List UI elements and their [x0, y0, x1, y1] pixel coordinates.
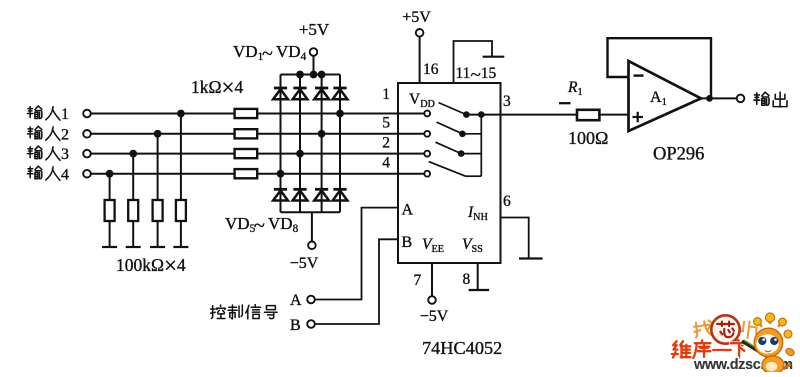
+5V clamp supply terminal	[299, 20, 330, 75]
op-amp A1 triangle	[629, 61, 702, 131]
svg-text:−5V: −5V	[290, 255, 319, 272]
common bus wire to pin 3	[461, 115, 481, 177]
plus input mark	[633, 112, 644, 123]
output node dot	[706, 95, 713, 102]
svg-text:16: 16	[423, 61, 439, 78]
polarity minus mark near R1	[559, 102, 571, 104]
pin 16 VDD supply: +5V terminal	[402, 9, 431, 83]
svg-text:2: 2	[382, 135, 390, 152]
wire A to IC pin A	[314, 208, 398, 300]
junction dot row 1 to bias resistor	[177, 110, 185, 118]
svg-text:3: 3	[503, 93, 511, 110]
resistor R1 (horizontal)	[577, 110, 599, 120]
svg-text:B: B	[402, 234, 413, 251]
diode VD5 (clamp to -5V)	[273, 189, 288, 200]
svg-text:8: 8	[463, 271, 471, 288]
diode VD1 (clamp to +5V)	[273, 88, 288, 99]
label 控制信号 (control signal)	[211, 305, 277, 319]
feedback wire output to - input	[608, 38, 712, 98]
diode VD4 (clamp to +5V)	[333, 88, 348, 99]
minus input mark	[634, 74, 644, 76]
pin number 6	[503, 193, 511, 210]
svg-text:~: ~	[254, 215, 265, 237]
wire from row 4 down to bias resistor 1	[109, 174, 111, 200]
svg-text:OP296: OP296	[653, 145, 704, 165]
wire input row 4	[90, 173, 424, 175]
resistor 100k #4 (vertical)	[176, 200, 186, 221]
wire resistor 3 to rail stub	[157, 221, 159, 247]
resistor 1k row 4 (horizontal)	[235, 169, 258, 178]
svg-text:A: A	[290, 292, 302, 309]
wire clamp column 2	[299, 75, 301, 213]
-5V clamp supply terminal	[290, 212, 319, 272]
label VDD inside IC	[409, 91, 435, 110]
switch pole contact row 2	[424, 131, 430, 137]
wire input row 3	[90, 153, 424, 155]
label VD5~VD8	[225, 214, 299, 237]
watermark 找芯片	[693, 320, 757, 339]
label 输入2 (input 2)	[27, 126, 69, 143]
svg-text:1: 1	[382, 86, 390, 103]
input terminal 输入1	[83, 110, 91, 118]
pin number 7	[414, 272, 422, 289]
value label 1kΩ×4	[191, 75, 244, 100]
input terminal 输入3	[83, 150, 91, 158]
wire clamp column 1	[280, 75, 282, 213]
rail junction dots	[296, 71, 325, 79]
diode VD3 (clamp to +5V)	[314, 88, 329, 99]
switch arm row 4	[429, 162, 466, 177]
svg-text:+5V: +5V	[299, 20, 330, 39]
resistor 1k row 2 (horizontal)	[235, 129, 258, 138]
wire B to IC pin B	[314, 239, 398, 324]
label VD1~VD4	[233, 42, 307, 65]
resistor 100k #1 (vertical)	[105, 200, 115, 221]
label R1	[567, 79, 583, 98]
wire from row 1 down to bias resistor 4	[180, 114, 182, 201]
ground stub bar under resistor 4	[173, 246, 188, 248]
svg-text:B: B	[290, 317, 301, 334]
svg-text:+5V: +5V	[402, 9, 431, 26]
switch arm row 3	[436, 142, 462, 153]
wire from row 2 down to bias resistor 3	[157, 134, 159, 200]
resistor 1k row 1 (horizontal)	[235, 109, 258, 118]
svg-text:74HC4052: 74HC4052	[422, 338, 502, 358]
IC U1 74HC4052 body	[398, 83, 501, 263]
wire input row 2	[90, 133, 424, 135]
svg-text:100Ω: 100Ω	[568, 128, 608, 148]
pin number 8	[463, 271, 471, 288]
pin 7 VEE to -5V terminal	[420, 263, 449, 325]
label 输入3 (input 3)	[27, 146, 69, 163]
label A inside IC	[402, 202, 414, 219]
input terminal 输入2	[83, 130, 91, 138]
diode VD2 (clamp to +5V)	[293, 88, 308, 99]
label A1	[650, 89, 667, 108]
junction dot row 2 to bias resistor	[154, 130, 162, 138]
resistor 1k row 3 (horizontal)	[235, 149, 258, 158]
svg-text:3: 3	[61, 146, 69, 163]
wire resistor 1 to rail stub	[109, 221, 111, 247]
pins 11~15 tied to ground	[454, 41, 505, 83]
svg-text:6: 6	[503, 193, 511, 210]
wire input row 1	[90, 113, 424, 115]
pin number 1	[382, 86, 390, 103]
label B control input	[290, 317, 301, 334]
watermark url www.dzsc.com	[693, 357, 793, 373]
output terminal	[737, 95, 745, 103]
wire pin 3 to R1	[466, 114, 577, 116]
value label 100Ω	[568, 128, 608, 148]
label 输出 (output)	[754, 92, 787, 107]
terminal A	[307, 296, 315, 304]
input terminal 输入4	[83, 170, 91, 178]
wire from row 3 down to bias resistor 2	[132, 154, 134, 200]
pin 6 INH wire to ground	[501, 218, 543, 259]
diode VD6 (clamp to -5V)	[293, 189, 308, 200]
label VEE inside IC	[422, 236, 444, 255]
junction dot row 3 to clamp diode column	[296, 150, 304, 158]
diode VD7 (clamp to -5V)	[314, 189, 329, 200]
label 74HC4052	[422, 338, 502, 358]
svg-text:−5V: −5V	[420, 308, 449, 325]
svg-text:1kΩ×4: 1kΩ×4	[191, 75, 244, 100]
bottom clamp rail (-5V)	[281, 211, 341, 213]
label A control input	[290, 292, 302, 309]
top clamp rail (+5V)	[281, 74, 341, 76]
svg-text:7: 7	[414, 272, 422, 289]
wire R1 to op-amp + input	[599, 114, 628, 116]
label OP296	[653, 145, 704, 165]
switch arm row 1	[439, 103, 467, 115]
switch pole contact row 3	[424, 151, 430, 157]
svg-text:4: 4	[382, 155, 390, 172]
ground stub bar under resistor 3	[150, 246, 165, 248]
resistor 100k #3 (vertical)	[153, 200, 163, 221]
pin number 16	[423, 61, 439, 78]
wire clamp column 3	[321, 75, 323, 213]
svg-text:100kΩ×4: 100kΩ×4	[116, 253, 186, 278]
label 输入4 (input 4)	[27, 166, 69, 183]
junction dot row 4 to clamp diode column	[277, 170, 285, 178]
svg-text:4: 4	[61, 166, 69, 183]
ground stub bar under resistor 2	[126, 246, 141, 248]
label VSS inside IC	[462, 236, 483, 255]
watermark magnifier with 芯	[711, 315, 743, 346]
output wire	[701, 97, 737, 99]
ground stub bar under resistor 1	[102, 246, 117, 248]
switch pole contact row 4	[424, 171, 430, 177]
switch pole contact row 1	[424, 111, 430, 117]
svg-text:1: 1	[61, 106, 69, 123]
pin number 4	[382, 155, 390, 172]
svg-text:5: 5	[382, 115, 390, 132]
wire resistor 2 to rail stub	[132, 221, 134, 247]
pin number 5	[382, 115, 390, 132]
pin number 2	[382, 135, 390, 152]
value label 100kΩ×4	[116, 253, 186, 278]
svg-text:~: ~	[262, 43, 273, 65]
watermark 维库一下	[672, 340, 748, 358]
junction dot row 1 to clamp diode column	[336, 110, 344, 118]
pin 8 VSS to ground	[469, 263, 490, 290]
svg-text:A: A	[402, 202, 414, 219]
label B inside IC	[402, 234, 413, 251]
wire resistor 4 to rail stub	[180, 221, 182, 247]
wire clamp column 4	[339, 75, 341, 213]
resistor 100k #2 (vertical)	[128, 200, 138, 221]
svg-text:2: 2	[61, 126, 69, 143]
terminal B	[307, 320, 315, 328]
pin number 3	[503, 93, 511, 110]
junction dot row 3 to bias resistor	[129, 150, 137, 158]
junction dot row 4 to bias resistor	[106, 170, 114, 178]
label 输入1 (input 1)	[27, 106, 69, 123]
label INH inside IC	[467, 204, 489, 223]
diode VD8 (clamp to -5V)	[333, 189, 348, 200]
switch arm row 2	[437, 122, 463, 134]
junction dot row 2 to clamp diode column	[318, 130, 326, 138]
watermark mascot	[742, 313, 795, 374]
switch common dots rows 1-3	[458, 111, 485, 157]
pin label 11~15	[456, 65, 497, 86]
